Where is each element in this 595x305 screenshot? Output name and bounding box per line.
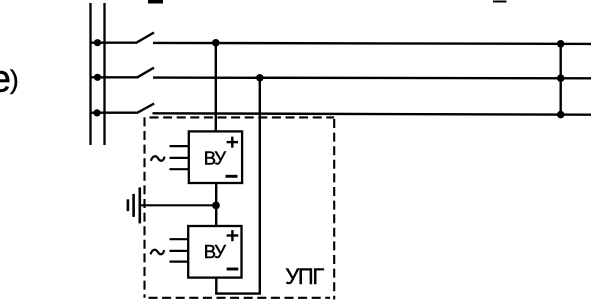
svg-text:УПГ: УПГ — [285, 264, 324, 289]
svg-text:ВУ: ВУ — [204, 148, 227, 169]
svg-text:ВУ: ВУ — [204, 241, 227, 262]
svg-text:): ) — [10, 65, 19, 95]
